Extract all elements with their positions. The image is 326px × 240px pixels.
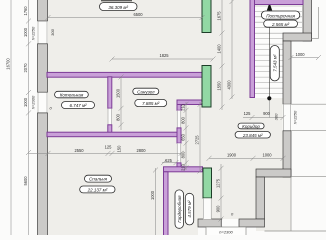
stair shaft step lines bbox=[255, 33, 284, 93]
svg-text:1675: 1675 bbox=[217, 11, 222, 21]
dim line bathroom left bbox=[120, 77, 122, 130]
tag Постирочная bbox=[261, 11, 299, 19]
svg-text:22.137 м²: 22.137 м² bbox=[87, 188, 108, 193]
stair walking line bbox=[269, 6, 271, 98]
opening bottom wall (window) bbox=[222, 219, 239, 227]
svg-text:1760: 1760 bbox=[23, 6, 28, 16]
svg-text:800: 800 bbox=[180, 116, 185, 124]
wall P8 laundry top purple bbox=[255, 0, 304, 5]
tag 36.309 bbox=[100, 3, 138, 11]
svg-text:6.747 м²: 6.747 м² bbox=[69, 103, 87, 108]
door gap bathroom left bbox=[108, 109, 112, 125]
tag Гардеробная rotated bbox=[175, 190, 184, 228]
wall W3 laundry bottom bbox=[283, 33, 312, 41]
svg-text:1400: 1400 bbox=[217, 44, 222, 54]
opening right wall (door 900 h=2250) bbox=[283, 104, 292, 131]
box h=2300 bottom bbox=[206, 227, 246, 237]
opening in left wall (door h=2300) bbox=[37, 93, 48, 114]
tag room name stub cut at top bbox=[101, 0, 132, 2]
tag 4.579 rotated bbox=[185, 193, 193, 225]
svg-text:1000: 1000 bbox=[150, 190, 155, 200]
svg-text:6500: 6500 bbox=[133, 12, 143, 17]
svg-text:4.579 м²: 4.579 м² bbox=[187, 200, 192, 218]
dim corridor door line bbox=[243, 117, 283, 119]
svg-text:1825: 1825 bbox=[159, 53, 169, 58]
svg-text:150: 150 bbox=[117, 145, 122, 153]
svg-text:Спальня: Спальня bbox=[89, 177, 108, 182]
radiator R3 lower bbox=[203, 168, 212, 198]
dim 1825 line bbox=[112, 58, 213, 60]
svg-text:1000: 1000 bbox=[262, 153, 272, 158]
interior floor main bbox=[47, 0, 283, 219]
svg-text:1000: 1000 bbox=[23, 27, 28, 37]
tag 7.543 rotated bbox=[270, 46, 279, 81]
dim 625 line bbox=[162, 162, 177, 164]
svg-text:900: 900 bbox=[216, 205, 221, 213]
stair walk end dot bbox=[267, 96, 271, 100]
dim wardrobe 1000 bbox=[155, 168, 157, 235]
patio floor bottom-right bbox=[256, 177, 291, 231]
dim radiator3 line bbox=[220, 164, 222, 226]
patio boundary top bbox=[291, 176, 326, 178]
svg-text:Санузел: Санузел bbox=[137, 89, 155, 94]
wall P5 wardrobe top bbox=[164, 167, 203, 172]
svg-text:800: 800 bbox=[180, 151, 185, 159]
jamb lines right opening bbox=[282, 104, 284, 130]
thin porch line top-right horizontal bbox=[312, 38, 319, 40]
svg-text:125: 125 bbox=[105, 144, 113, 149]
svg-text:2.565 м²: 2.565 м² bbox=[271, 22, 290, 27]
wall P2b bathroom left lower stub bbox=[108, 125, 112, 134]
wall P1 top purple wall bbox=[47, 72, 202, 77]
dim 1000 top right bbox=[291, 57, 319, 59]
dim 6500 line bbox=[48, 17, 202, 19]
svg-text:2725: 2725 bbox=[195, 135, 200, 145]
wall W4b right exterior lower bbox=[283, 131, 291, 177]
svg-text:300: 300 bbox=[274, 113, 279, 120]
svg-text:4300: 4300 bbox=[227, 80, 232, 90]
radiator R1 top bbox=[202, 0, 211, 33]
svg-text:Гардеробная: Гардеробная bbox=[177, 195, 182, 223]
dim chain line bathroom right bbox=[185, 102, 187, 170]
opening in left wall (window h=2250) bbox=[37, 21, 48, 43]
svg-text:Постирочная: Постирочная bbox=[266, 13, 295, 18]
thin porch line top-right vertical bbox=[318, 7, 320, 39]
svg-text:h=2250: h=2250 bbox=[31, 26, 36, 40]
svg-text:Коридор: Коридор bbox=[242, 124, 260, 129]
tick bbox=[26, 19, 31, 24]
wall W2 top right block bbox=[303, 0, 312, 41]
stair up arrow bbox=[267, 3, 272, 11]
patio boundary right bbox=[290, 177, 292, 231]
svg-text:Котельная: Котельная bbox=[60, 93, 84, 98]
wall P4c bathroom right lower stub bbox=[177, 163, 181, 168]
svg-text:650: 650 bbox=[180, 133, 185, 141]
wall P4b bathroom right middle bbox=[177, 128, 181, 143]
tag 6.747 bbox=[62, 102, 95, 109]
tag Санузел bbox=[133, 88, 159, 94]
svg-text:23.845 м²: 23.845 м² bbox=[242, 133, 263, 138]
tag 2.565 bbox=[264, 20, 298, 27]
wall W1b left exterior middle bbox=[38, 44, 48, 92]
svg-text:1000: 1000 bbox=[295, 52, 305, 57]
stair landing step lines bbox=[255, 6, 303, 28]
wall W6 step vertical bbox=[256, 177, 265, 219]
wall W5 step horizontal bbox=[256, 169, 291, 177]
wall W7b bottom wall right part bbox=[239, 219, 265, 227]
interior floor bottom-left strip bbox=[47, 219, 198, 235]
dim line vertical left chain bbox=[28, 0, 30, 235]
svg-text:1275: 1275 bbox=[216, 178, 221, 188]
svg-text:h=2300: h=2300 bbox=[31, 95, 36, 109]
wall P6 wardrobe left bbox=[164, 172, 169, 236]
dim total 2725 line bbox=[199, 102, 201, 172]
svg-text:1550: 1550 bbox=[217, 81, 222, 91]
svg-text:1900: 1900 bbox=[227, 153, 237, 158]
svg-text:800: 800 bbox=[115, 113, 120, 121]
patio boundary bottom bbox=[265, 230, 326, 232]
dim corridor line bbox=[209, 157, 283, 159]
svg-text:5600: 5600 bbox=[23, 176, 28, 186]
wall P2a bathroom left upper bbox=[108, 77, 112, 108]
svg-text:2070: 2070 bbox=[23, 63, 28, 73]
wall W1c left exterior bottom bbox=[38, 113, 48, 236]
wall W7a bottom wall left part bbox=[198, 219, 222, 227]
svg-text:7.885 м²: 7.885 м² bbox=[142, 101, 160, 106]
threshold line lower of right door bbox=[291, 130, 326, 132]
stair landing white bbox=[254, 4, 302, 33]
tag 23.845 bbox=[235, 132, 270, 139]
wall W1a left exterior top bbox=[38, 0, 48, 21]
tag Коридор bbox=[238, 123, 264, 129]
svg-text:7.543 м²: 7.543 м² bbox=[273, 54, 278, 72]
svg-text:h=2300: h=2300 bbox=[219, 230, 233, 235]
jamb lines opening1 bbox=[37, 22, 39, 44]
svg-text:125: 125 bbox=[244, 111, 252, 116]
dim bedroom line bbox=[29, 152, 182, 154]
dim line vertical 16700 bbox=[10, 0, 12, 235]
tag 7.885 bbox=[135, 100, 167, 107]
door gap bathroom right lower bbox=[177, 143, 181, 163]
svg-text:16700: 16700 bbox=[5, 58, 10, 70]
dim 4300 line bbox=[231, 0, 233, 99]
wall P4conn bathroom right top connector bbox=[177, 100, 202, 105]
wall P4a bathroom right upper stub bbox=[177, 105, 181, 111]
dim line radiators right bbox=[221, 0, 223, 110]
jamb lines opening2 bbox=[37, 93, 39, 113]
svg-text:2550: 2550 bbox=[74, 148, 84, 153]
walking line extension to dim bbox=[268, 98, 270, 118]
threshold line upper of right door bbox=[291, 103, 326, 105]
svg-text:1500: 1500 bbox=[115, 88, 120, 98]
svg-text:h=2250: h=2250 bbox=[293, 110, 298, 124]
svg-text:300: 300 bbox=[50, 28, 55, 35]
svg-text:900: 900 bbox=[263, 111, 271, 116]
svg-text:2800: 2800 bbox=[136, 148, 146, 153]
radiator R2 middle bbox=[202, 66, 211, 108]
door strip below radiator R3 bbox=[203, 198, 212, 219]
tag 22.137 bbox=[80, 186, 115, 193]
svg-text:1000: 1000 bbox=[23, 97, 28, 107]
stair shaft white bbox=[254, 33, 283, 98]
svg-text:36.309 м²: 36.309 м² bbox=[108, 5, 128, 10]
tag Спальня bbox=[85, 175, 112, 182]
wall P3 bedroom wall bbox=[47, 132, 181, 137]
svg-text:210: 210 bbox=[180, 103, 185, 111]
wall W4a right exterior upper bbox=[283, 41, 291, 104]
door gap bathroom right upper bbox=[177, 110, 181, 127]
svg-text:625: 625 bbox=[165, 158, 173, 163]
svg-text:210: 210 bbox=[180, 163, 185, 171]
tag Котельная bbox=[55, 91, 89, 98]
wall P7 stair left purple bbox=[250, 0, 255, 98]
